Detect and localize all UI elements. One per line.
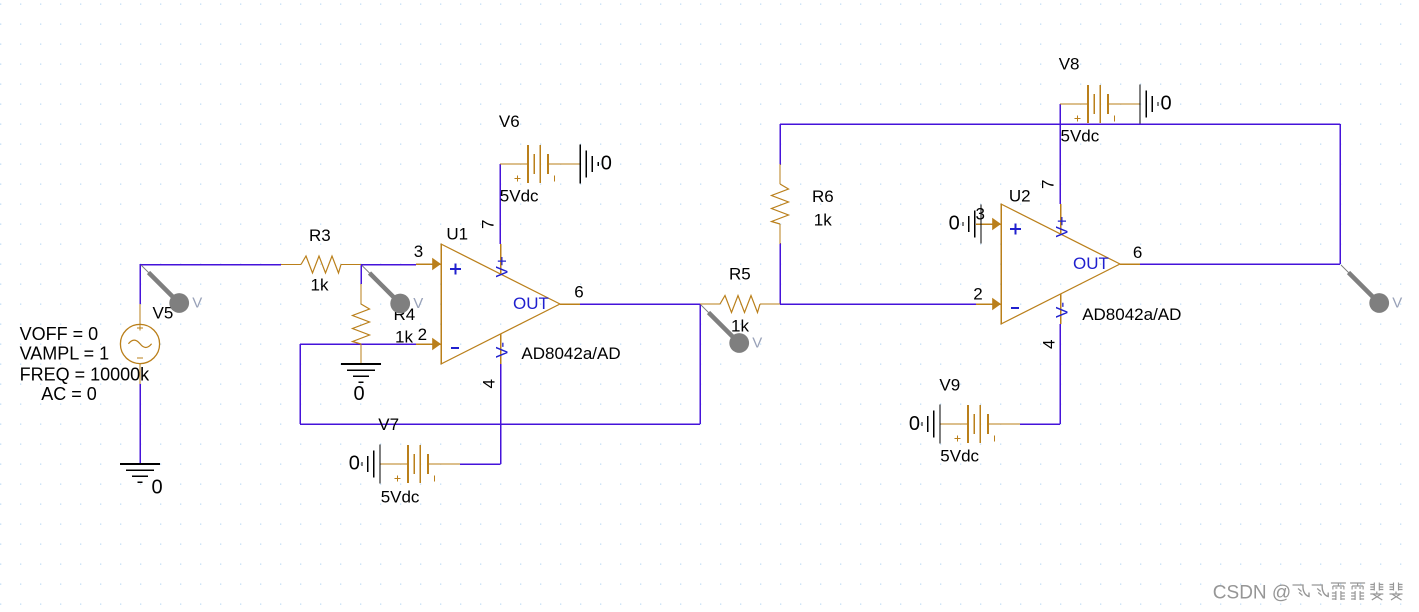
watermark CSDN [1213,583,1403,604]
resistor R3 [281,256,361,273]
wire node A to U1 pin3 [361,264,416,266]
value V8 5Vdc [1061,127,1100,146]
value R4 1k [395,328,413,347]
svg-text:V: V [192,295,202,312]
ground 0 at U2 pin3 [949,204,981,243]
wire V7 horizontal [460,463,501,465]
op-amp U2 AD8042a/AD [976,203,1140,324]
wire feedback right vertical [699,304,701,424]
svg-text:5Vdc: 5Vdc [381,488,420,507]
source V9 5Vdc battery [940,405,1020,443]
wire V5 to R3 [139,264,281,266]
label V7 [378,415,399,434]
svg-text:VAMPL = 1: VAMPL = 1 [20,344,110,364]
svg-text:5Vdc: 5Vdc [940,447,979,466]
ground 0 at V7 [349,444,380,483]
ground 0 below V5 [120,464,163,499]
svg-text:OUT: OUT [513,294,549,313]
ground 0 at V8 [1140,84,1172,123]
value R6 1k [814,211,832,230]
svg-text:FREQ = 10000k: FREQ = 10000k [20,364,151,384]
label V8 [1059,55,1080,74]
label U1 [446,225,468,244]
svg-text:R6: R6 [812,187,834,206]
label U2 [1009,187,1031,206]
svg-text:7: 7 [479,220,498,229]
U2 part value AD8042a/AD [1082,305,1181,324]
value R5 1k [731,317,749,336]
source V6 5Vdc battery [500,145,580,183]
svg-text:V: V [752,335,762,352]
svg-text:5Vdc: 5Vdc [1061,127,1100,146]
ground 0 below R4 [341,364,381,405]
source V5 (VSIN) [120,304,159,384]
svg-text:V+: V+ [493,256,512,277]
svg-text:1k: 1k [395,328,413,347]
svg-text:V8: V8 [1059,55,1080,74]
wire V9 horizontal [1020,423,1060,425]
op-amp U1 AD8042a/AD [416,243,580,364]
svg-text:3: 3 [414,242,423,261]
svg-text:V9: V9 [939,376,960,395]
svg-text:R3: R3 [309,226,331,245]
value R3 1k [311,276,329,295]
ground 0 at V9 [909,404,940,443]
svg-text:V: V [413,295,423,312]
label V9 [939,376,960,395]
svg-text:5Vdc: 5Vdc [500,187,539,206]
svg-text:V6: V6 [499,112,520,131]
svg-text:0: 0 [601,153,612,175]
svg-text:3: 3 [976,205,985,224]
U2 pin number 7 [1039,180,1058,189]
wire feedback to U1 pin2 [300,343,416,345]
svg-text:V7: V7 [378,415,399,434]
svg-text:0: 0 [909,413,920,435]
wire R5 to U2 pin2 [780,303,993,305]
svg-text:V+: V+ [1053,216,1072,237]
svg-text:6: 6 [574,283,583,302]
value V6 5Vdc [500,187,539,206]
V5 parameter FREQ [20,364,151,384]
U1 pin number 4 [480,379,499,388]
label V6 [499,112,520,131]
svg-text:U1: U1 [446,225,468,244]
V5 parameter VAMPL [20,344,110,364]
wire V6 to U1 pin7 [499,164,501,244]
label R3 [309,226,331,245]
wire feedback2 right vertical [1339,124,1341,264]
resistor R5 [700,296,780,313]
wire R6 bottom [779,243,781,304]
node A stub down to R4 [360,265,362,285]
value V7 5Vdc [381,488,420,507]
svg-text:6: 6 [1133,243,1142,262]
svg-text:CSDN @: CSDN @ [1213,583,1291,604]
voltage probe at output node [1341,265,1402,313]
voltage probe at R5 node [701,305,762,353]
U2 pin number 2 [973,285,982,304]
U1 part value AD8042a/AD [521,344,620,363]
svg-text:OUT: OUT [1073,254,1109,273]
svg-text:AC = 0: AC = 0 [41,384,97,404]
svg-text:1k: 1k [814,211,832,230]
voltage probe at U1 pin3 node [362,266,423,314]
source V8 5Vdc battery [1060,85,1140,123]
U1 pin number 7 [479,220,498,229]
svg-text:1k: 1k [731,317,749,336]
wire feedback bottom [300,423,700,425]
wire feedback2 top [780,123,1340,125]
wire V5 top vertical [139,265,141,305]
svg-text:0: 0 [152,477,163,499]
U1 pin number 3 [414,242,423,261]
resistor R6 [772,164,789,244]
wire U2 pin4 to V9 [1059,324,1061,424]
svg-text:0: 0 [349,452,360,474]
svg-text:R5: R5 [729,265,751,284]
V5 parameter AC [41,384,97,404]
U1 pin number 6 [574,283,583,302]
svg-text:V-: V- [493,342,512,358]
label R6 [812,187,834,206]
voltage probe at V5 node [141,265,202,313]
svg-text:VOFF = 0: VOFF = 0 [20,324,99,344]
svg-text:0: 0 [949,213,960,235]
svg-text:4: 4 [1040,340,1059,349]
wire feedback left vertical [299,344,301,424]
ground 0 at V6 [580,144,612,183]
value V9 5Vdc [940,447,979,466]
wire U1 output [580,303,700,305]
svg-text:2: 2 [418,325,427,344]
U2 pin number 4 [1040,340,1059,349]
label R4 [394,305,416,324]
V5 parameter VOFF [20,324,99,344]
resistor R4 [353,284,370,364]
wire U2 output [1140,263,1340,265]
svg-text:U2: U2 [1009,187,1031,206]
svg-text:0: 0 [354,383,365,405]
svg-text:AD8042a/AD: AD8042a/AD [521,344,620,363]
label R5 [729,265,751,284]
wire U1 pin4 to V7 [500,364,502,464]
svg-text:AD8042a/AD: AD8042a/AD [1082,305,1181,324]
wire V8 to U2 pin7 [1059,104,1061,204]
source V7 5Vdc battery [380,445,460,483]
svg-text:1k: 1k [311,276,329,295]
svg-text:V-: V- [1053,302,1072,318]
svg-text:V: V [1392,295,1402,312]
svg-text:0: 0 [1161,93,1172,115]
label V5 [153,304,174,323]
svg-text:2: 2 [973,285,982,304]
wire V5 bottom to ground [139,384,141,464]
wire R6 top [779,124,781,165]
svg-text:4: 4 [480,379,499,388]
U2 pin number 3 [976,205,985,224]
U2 pin number 6 [1133,243,1142,262]
svg-text:7: 7 [1039,180,1058,189]
U1 pin number 2 [418,325,427,344]
